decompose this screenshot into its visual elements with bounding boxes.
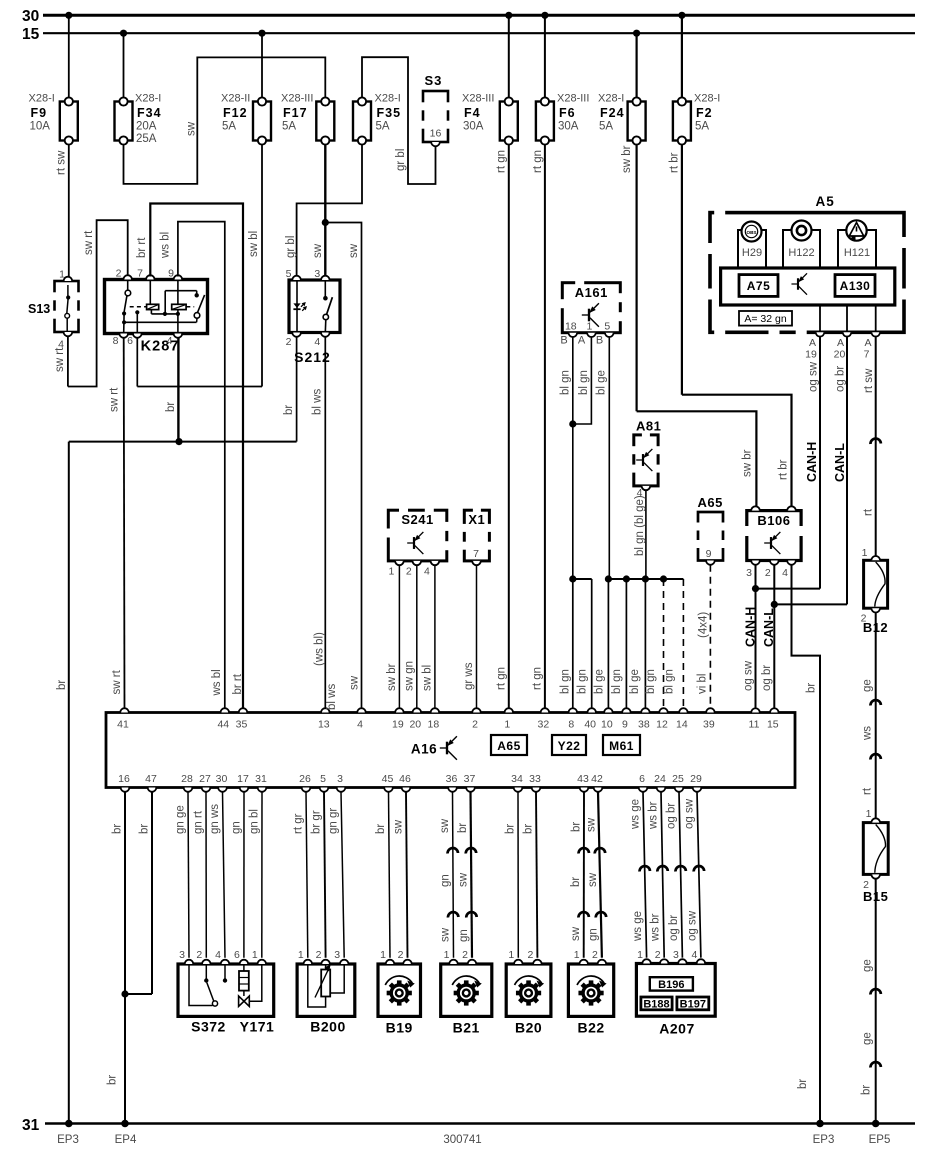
svg-text:6: 6 bbox=[639, 773, 645, 785]
svg-text:F9: F9 bbox=[31, 106, 48, 120]
svg-text:X28-III: X28-III bbox=[281, 93, 313, 105]
svg-text:31: 31 bbox=[22, 1117, 40, 1134]
svg-text:17: 17 bbox=[237, 773, 249, 785]
svg-text:32: 32 bbox=[538, 719, 550, 731]
svg-text:1: 1 bbox=[862, 547, 868, 559]
svg-text:bl gn: bl gn bbox=[559, 669, 571, 694]
svg-text:A: A bbox=[578, 335, 586, 347]
svg-text:sw br: sw br bbox=[386, 663, 398, 691]
svg-text:F35: F35 bbox=[377, 106, 402, 120]
svg-text:S13: S13 bbox=[28, 302, 50, 316]
svg-text:A: A bbox=[809, 337, 816, 349]
svg-text:9: 9 bbox=[168, 268, 174, 280]
svg-text:16: 16 bbox=[430, 128, 442, 140]
svg-text:29: 29 bbox=[690, 773, 702, 785]
svg-text:rt gn: rt gn bbox=[495, 150, 507, 173]
svg-text:(ws bl): (ws bl) bbox=[313, 632, 325, 666]
svg-text:6: 6 bbox=[127, 335, 133, 347]
svg-text:7: 7 bbox=[864, 349, 870, 361]
svg-text:A5: A5 bbox=[816, 194, 835, 209]
svg-text:4: 4 bbox=[357, 719, 363, 731]
svg-text:A: A bbox=[864, 337, 871, 349]
svg-text:og sw: og sw bbox=[742, 660, 754, 691]
svg-text:K287: K287 bbox=[141, 339, 180, 355]
svg-text:sw: sw bbox=[186, 121, 198, 136]
svg-text:7: 7 bbox=[473, 548, 479, 560]
svg-text:sw rt: sw rt bbox=[109, 387, 121, 412]
svg-text:sw: sw bbox=[585, 817, 597, 832]
svg-text:bl ws: bl ws bbox=[312, 389, 324, 415]
svg-text:rt: rt bbox=[863, 508, 875, 516]
svg-text:B19: B19 bbox=[386, 1020, 413, 1036]
svg-text:9: 9 bbox=[706, 548, 712, 560]
svg-text:X28-III: X28-III bbox=[462, 93, 494, 105]
svg-text:4: 4 bbox=[424, 566, 430, 578]
svg-text:br rt: br rt bbox=[232, 673, 244, 694]
svg-text:30A: 30A bbox=[558, 121, 579, 133]
svg-text:CAN-L: CAN-L bbox=[762, 608, 776, 647]
svg-text:S3: S3 bbox=[425, 73, 443, 88]
svg-text:1: 1 bbox=[298, 949, 304, 961]
svg-text:br gr: br gr bbox=[310, 810, 322, 834]
svg-text:gn ge: gn ge bbox=[174, 805, 186, 834]
svg-text:CAN-H: CAN-H bbox=[743, 607, 757, 647]
svg-text:B200: B200 bbox=[310, 1019, 345, 1035]
svg-text:2: 2 bbox=[196, 949, 202, 961]
svg-text:br: br bbox=[457, 823, 469, 833]
svg-text:M61: M61 bbox=[609, 739, 634, 753]
svg-text:X28-I: X28-I bbox=[29, 93, 55, 105]
svg-text:ws br: ws br bbox=[650, 913, 662, 942]
svg-text:31: 31 bbox=[255, 773, 267, 785]
svg-text:H29: H29 bbox=[742, 247, 762, 259]
svg-text:1: 1 bbox=[508, 949, 514, 961]
svg-text:A65: A65 bbox=[497, 739, 521, 753]
svg-text:5A: 5A bbox=[222, 121, 236, 133]
svg-text:rt: rt bbox=[862, 787, 874, 795]
svg-text:Y171: Y171 bbox=[240, 1019, 275, 1035]
svg-text:30A: 30A bbox=[463, 121, 484, 133]
svg-text:15: 15 bbox=[22, 26, 40, 43]
svg-text:br: br bbox=[806, 683, 818, 693]
svg-text:40: 40 bbox=[584, 719, 596, 731]
svg-text:sw gn: sw gn bbox=[404, 661, 416, 691]
svg-text:44: 44 bbox=[217, 719, 229, 731]
svg-text:br: br bbox=[283, 405, 295, 415]
svg-text:2: 2 bbox=[527, 949, 533, 961]
svg-text:sw: sw bbox=[348, 243, 360, 258]
svg-text:S241: S241 bbox=[401, 512, 433, 527]
svg-text:ws: ws bbox=[862, 726, 874, 741]
svg-text:bl gn (bl ge): bl gn (bl ge) bbox=[634, 495, 646, 556]
svg-text:4: 4 bbox=[167, 335, 173, 347]
svg-text:12: 12 bbox=[656, 719, 668, 731]
svg-text:20: 20 bbox=[409, 719, 421, 731]
svg-text:5A: 5A bbox=[599, 121, 613, 133]
svg-text:X28-III: X28-III bbox=[557, 93, 589, 105]
svg-text:gn rt: gn rt bbox=[192, 810, 204, 834]
svg-text:B: B bbox=[596, 335, 603, 347]
svg-text:13: 13 bbox=[318, 719, 330, 731]
svg-text:41: 41 bbox=[117, 719, 129, 731]
svg-text:45: 45 bbox=[382, 773, 394, 785]
svg-text:rt sw: rt sw bbox=[56, 150, 68, 175]
svg-text:35: 35 bbox=[236, 719, 248, 731]
svg-text:EP3: EP3 bbox=[57, 1134, 79, 1146]
svg-text:og sw: og sw bbox=[683, 798, 695, 829]
svg-text:24: 24 bbox=[654, 773, 666, 785]
svg-text:300741: 300741 bbox=[443, 1134, 481, 1146]
svg-text:A81: A81 bbox=[636, 419, 661, 434]
svg-text:1: 1 bbox=[252, 949, 258, 961]
svg-text:sw rt: sw rt bbox=[111, 669, 123, 694]
svg-text:25A: 25A bbox=[136, 133, 157, 145]
svg-text:43: 43 bbox=[577, 773, 589, 785]
svg-text:br: br bbox=[138, 824, 150, 834]
svg-text:br: br bbox=[522, 824, 534, 834]
svg-text:bl gn: bl gn bbox=[645, 669, 657, 694]
svg-text:B: B bbox=[560, 335, 567, 347]
svg-text:11: 11 bbox=[749, 719, 760, 731]
svg-text:F24: F24 bbox=[600, 106, 625, 120]
svg-text:19: 19 bbox=[392, 719, 404, 731]
svg-text:X28-I: X28-I bbox=[598, 93, 624, 105]
svg-text:ge: ge bbox=[862, 959, 874, 972]
svg-text:2: 2 bbox=[592, 949, 598, 961]
svg-text:B21: B21 bbox=[453, 1020, 480, 1036]
svg-text:ws bl: ws bl bbox=[160, 232, 172, 259]
svg-text:20A: 20A bbox=[136, 121, 157, 133]
svg-text:3: 3 bbox=[673, 949, 679, 961]
svg-text:sw br: sw br bbox=[621, 145, 633, 173]
svg-text:br: br bbox=[375, 824, 387, 834]
svg-text:38: 38 bbox=[638, 719, 650, 731]
svg-text:br: br bbox=[797, 1079, 809, 1089]
svg-text:3: 3 bbox=[337, 773, 343, 785]
svg-text:4: 4 bbox=[782, 567, 788, 579]
svg-text:1: 1 bbox=[388, 566, 394, 578]
svg-text:og br: og br bbox=[835, 366, 847, 392]
svg-text:2: 2 bbox=[398, 949, 404, 961]
svg-text:(4x4): (4x4) bbox=[697, 612, 709, 638]
svg-text:36: 36 bbox=[446, 773, 458, 785]
svg-text:bl gn: bl gn bbox=[578, 370, 590, 395]
svg-text:28: 28 bbox=[181, 773, 193, 785]
svg-text:gn bl: gn bl bbox=[248, 809, 260, 834]
svg-text:gn gr: gn gr bbox=[327, 808, 339, 834]
svg-text:br: br bbox=[111, 824, 123, 834]
svg-text:sw: sw bbox=[457, 872, 469, 887]
svg-text:2: 2 bbox=[462, 949, 468, 961]
svg-text:27: 27 bbox=[199, 773, 211, 785]
svg-text:br: br bbox=[165, 402, 177, 412]
svg-text:bl gn: bl gn bbox=[611, 669, 623, 694]
svg-text:F17: F17 bbox=[283, 106, 308, 120]
svg-text:gr ws: gr ws bbox=[463, 662, 475, 690]
svg-text:F34: F34 bbox=[137, 106, 162, 120]
svg-text:1: 1 bbox=[637, 949, 643, 961]
svg-text:sw: sw bbox=[439, 818, 451, 833]
svg-text:F2: F2 bbox=[696, 106, 713, 120]
svg-text:A161: A161 bbox=[575, 285, 608, 300]
svg-text:16: 16 bbox=[118, 773, 130, 785]
svg-text:4: 4 bbox=[215, 949, 221, 961]
svg-text:8: 8 bbox=[113, 335, 119, 347]
svg-text:A: A bbox=[837, 337, 844, 349]
svg-text:A16: A16 bbox=[411, 742, 437, 757]
svg-text:4: 4 bbox=[314, 336, 320, 348]
svg-text:sw: sw bbox=[587, 872, 599, 887]
svg-text:EP3: EP3 bbox=[813, 1134, 835, 1146]
svg-text:gn ws: gn ws bbox=[209, 804, 221, 834]
svg-text:1: 1 bbox=[586, 321, 592, 333]
svg-text:47: 47 bbox=[145, 773, 157, 785]
svg-text:1: 1 bbox=[866, 808, 872, 820]
svg-text:10: 10 bbox=[601, 719, 613, 731]
svg-text:sw: sw bbox=[348, 675, 360, 690]
svg-text:br: br bbox=[570, 877, 582, 887]
svg-text:5: 5 bbox=[320, 773, 326, 785]
svg-text:15: 15 bbox=[767, 719, 779, 731]
svg-text:X1: X1 bbox=[468, 512, 485, 527]
svg-text:F4: F4 bbox=[464, 106, 481, 120]
svg-text:3: 3 bbox=[314, 268, 320, 280]
svg-text:14: 14 bbox=[676, 719, 688, 731]
svg-text:rt br: rt br bbox=[778, 459, 790, 480]
svg-text:og sw: og sw bbox=[686, 910, 698, 941]
svg-text:gn: gn bbox=[458, 929, 470, 942]
svg-text:B188: B188 bbox=[643, 999, 669, 1011]
svg-text:1: 1 bbox=[444, 949, 450, 961]
svg-text:F12: F12 bbox=[223, 106, 248, 120]
svg-text:42: 42 bbox=[591, 773, 603, 785]
svg-text:gr bl: gr bl bbox=[395, 149, 407, 171]
svg-text:33: 33 bbox=[529, 773, 541, 785]
svg-text:39: 39 bbox=[703, 719, 715, 731]
svg-text:B22: B22 bbox=[577, 1020, 604, 1036]
svg-text:25: 25 bbox=[672, 773, 684, 785]
svg-text:4: 4 bbox=[691, 949, 697, 961]
svg-text:CAN-L: CAN-L bbox=[833, 443, 847, 482]
svg-text:bl gn: bl gn bbox=[559, 370, 571, 395]
svg-text:sw br: sw br bbox=[742, 449, 754, 477]
svg-text:H121: H121 bbox=[844, 247, 870, 259]
svg-text:rt sw: rt sw bbox=[863, 368, 875, 393]
svg-text:sw bl: sw bl bbox=[248, 231, 260, 257]
svg-text:Y22: Y22 bbox=[558, 739, 581, 753]
svg-text:EP5: EP5 bbox=[869, 1134, 891, 1146]
svg-text:F6: F6 bbox=[559, 106, 576, 120]
svg-text:8: 8 bbox=[568, 719, 574, 731]
svg-text:sw: sw bbox=[440, 927, 452, 942]
svg-text:ge: ge bbox=[862, 679, 874, 692]
svg-text:2: 2 bbox=[316, 949, 322, 961]
svg-text:og br: og br bbox=[668, 915, 680, 941]
svg-text:og br: og br bbox=[665, 803, 677, 829]
svg-text:A65: A65 bbox=[698, 495, 723, 510]
svg-text:br: br bbox=[570, 822, 582, 832]
svg-text:2: 2 bbox=[472, 719, 478, 731]
svg-text:ws ge: ws ge bbox=[629, 799, 641, 830]
svg-text:34: 34 bbox=[511, 773, 523, 785]
svg-text:1: 1 bbox=[574, 949, 580, 961]
svg-text:5: 5 bbox=[604, 321, 610, 333]
svg-text:18: 18 bbox=[565, 321, 577, 333]
svg-text:20: 20 bbox=[834, 349, 846, 361]
svg-text:A75: A75 bbox=[747, 279, 771, 293]
svg-text:ws bl: ws bl bbox=[211, 669, 223, 696]
svg-text:br: br bbox=[504, 824, 516, 834]
svg-text:sw rt: sw rt bbox=[54, 347, 66, 372]
svg-text:B106: B106 bbox=[757, 513, 790, 528]
svg-text:rt gn: rt gn bbox=[531, 667, 543, 690]
svg-text:S372: S372 bbox=[191, 1019, 226, 1035]
svg-text:37: 37 bbox=[464, 773, 476, 785]
svg-text:rt gr: rt gr bbox=[292, 813, 304, 834]
svg-text:og br: og br bbox=[761, 665, 773, 691]
svg-text:sw: sw bbox=[312, 243, 324, 258]
svg-text:br rt: br rt bbox=[136, 237, 148, 258]
svg-text:3: 3 bbox=[179, 949, 185, 961]
svg-text:X28-I: X28-I bbox=[694, 93, 720, 105]
svg-text:bl gn: bl gn bbox=[576, 669, 588, 694]
svg-text:OBS: OBS bbox=[747, 230, 757, 235]
svg-text:sw rt: sw rt bbox=[83, 230, 95, 255]
svg-text:X28-I: X28-I bbox=[375, 93, 401, 105]
svg-text:2: 2 bbox=[655, 949, 661, 961]
svg-text:1: 1 bbox=[380, 949, 386, 961]
svg-text:ge: ge bbox=[862, 1032, 874, 1045]
svg-text:5: 5 bbox=[286, 268, 292, 280]
svg-text:bl ws: bl ws bbox=[326, 684, 338, 710]
svg-text:sw: sw bbox=[392, 819, 404, 834]
svg-text:5A: 5A bbox=[376, 121, 390, 133]
svg-text:br: br bbox=[56, 680, 68, 690]
svg-text:sw: sw bbox=[570, 926, 582, 941]
svg-text:46: 46 bbox=[399, 773, 411, 785]
svg-text:br: br bbox=[107, 1075, 119, 1085]
svg-text:gn: gn bbox=[588, 928, 600, 941]
svg-text:rt br: rt br bbox=[669, 152, 681, 173]
svg-text:2: 2 bbox=[406, 566, 412, 578]
svg-text:6: 6 bbox=[234, 949, 240, 961]
svg-text:bl ge: bl ge bbox=[629, 669, 641, 694]
svg-text:10A: 10A bbox=[30, 121, 51, 133]
svg-text:bl ge: bl ge bbox=[594, 669, 606, 694]
svg-text:5A: 5A bbox=[695, 121, 709, 133]
svg-text:bl ge: bl ge bbox=[596, 370, 608, 395]
svg-text:2: 2 bbox=[116, 268, 122, 280]
svg-text:rt gn: rt gn bbox=[495, 667, 507, 690]
svg-text:br: br bbox=[861, 1085, 873, 1095]
svg-text:3: 3 bbox=[334, 949, 340, 961]
svg-text:1: 1 bbox=[59, 269, 65, 281]
svg-text:bl gn: bl gn bbox=[663, 669, 675, 694]
svg-text:B197: B197 bbox=[680, 999, 706, 1011]
svg-text:19: 19 bbox=[805, 349, 817, 361]
svg-text:gr bl: gr bl bbox=[285, 236, 297, 258]
svg-text:18: 18 bbox=[428, 719, 440, 731]
svg-text:vi bl: vi bl bbox=[697, 674, 709, 694]
svg-text:B20: B20 bbox=[515, 1020, 542, 1036]
svg-text:ws ge: ws ge bbox=[632, 911, 644, 942]
svg-text:EP4: EP4 bbox=[115, 1134, 137, 1146]
svg-text:A= 32 gn: A= 32 gn bbox=[744, 313, 786, 325]
svg-text:3: 3 bbox=[746, 567, 752, 579]
svg-text:B196: B196 bbox=[658, 979, 684, 991]
svg-text:og sw: og sw bbox=[808, 361, 820, 392]
svg-text:sw bl: sw bl bbox=[422, 665, 434, 691]
svg-text:2: 2 bbox=[286, 336, 292, 348]
svg-text:5A: 5A bbox=[282, 121, 296, 133]
svg-text:7: 7 bbox=[137, 268, 143, 280]
svg-text:A207: A207 bbox=[659, 1021, 694, 1037]
svg-text:H122: H122 bbox=[788, 247, 814, 259]
svg-text:ws br: ws br bbox=[647, 801, 659, 830]
svg-text:26: 26 bbox=[299, 773, 311, 785]
svg-text:gn: gn bbox=[230, 821, 242, 834]
svg-text:X28-II: X28-II bbox=[221, 93, 250, 105]
svg-text:CAN-H: CAN-H bbox=[805, 442, 819, 482]
svg-text:gn: gn bbox=[439, 874, 451, 887]
svg-text:1: 1 bbox=[504, 719, 510, 731]
svg-text:X28-I: X28-I bbox=[135, 93, 161, 105]
svg-text:2: 2 bbox=[765, 567, 771, 579]
svg-text:A130: A130 bbox=[840, 279, 871, 293]
svg-text:rt gn: rt gn bbox=[532, 150, 544, 173]
svg-text:30: 30 bbox=[216, 773, 228, 785]
svg-text:9: 9 bbox=[622, 719, 628, 731]
svg-text:30: 30 bbox=[22, 8, 39, 25]
